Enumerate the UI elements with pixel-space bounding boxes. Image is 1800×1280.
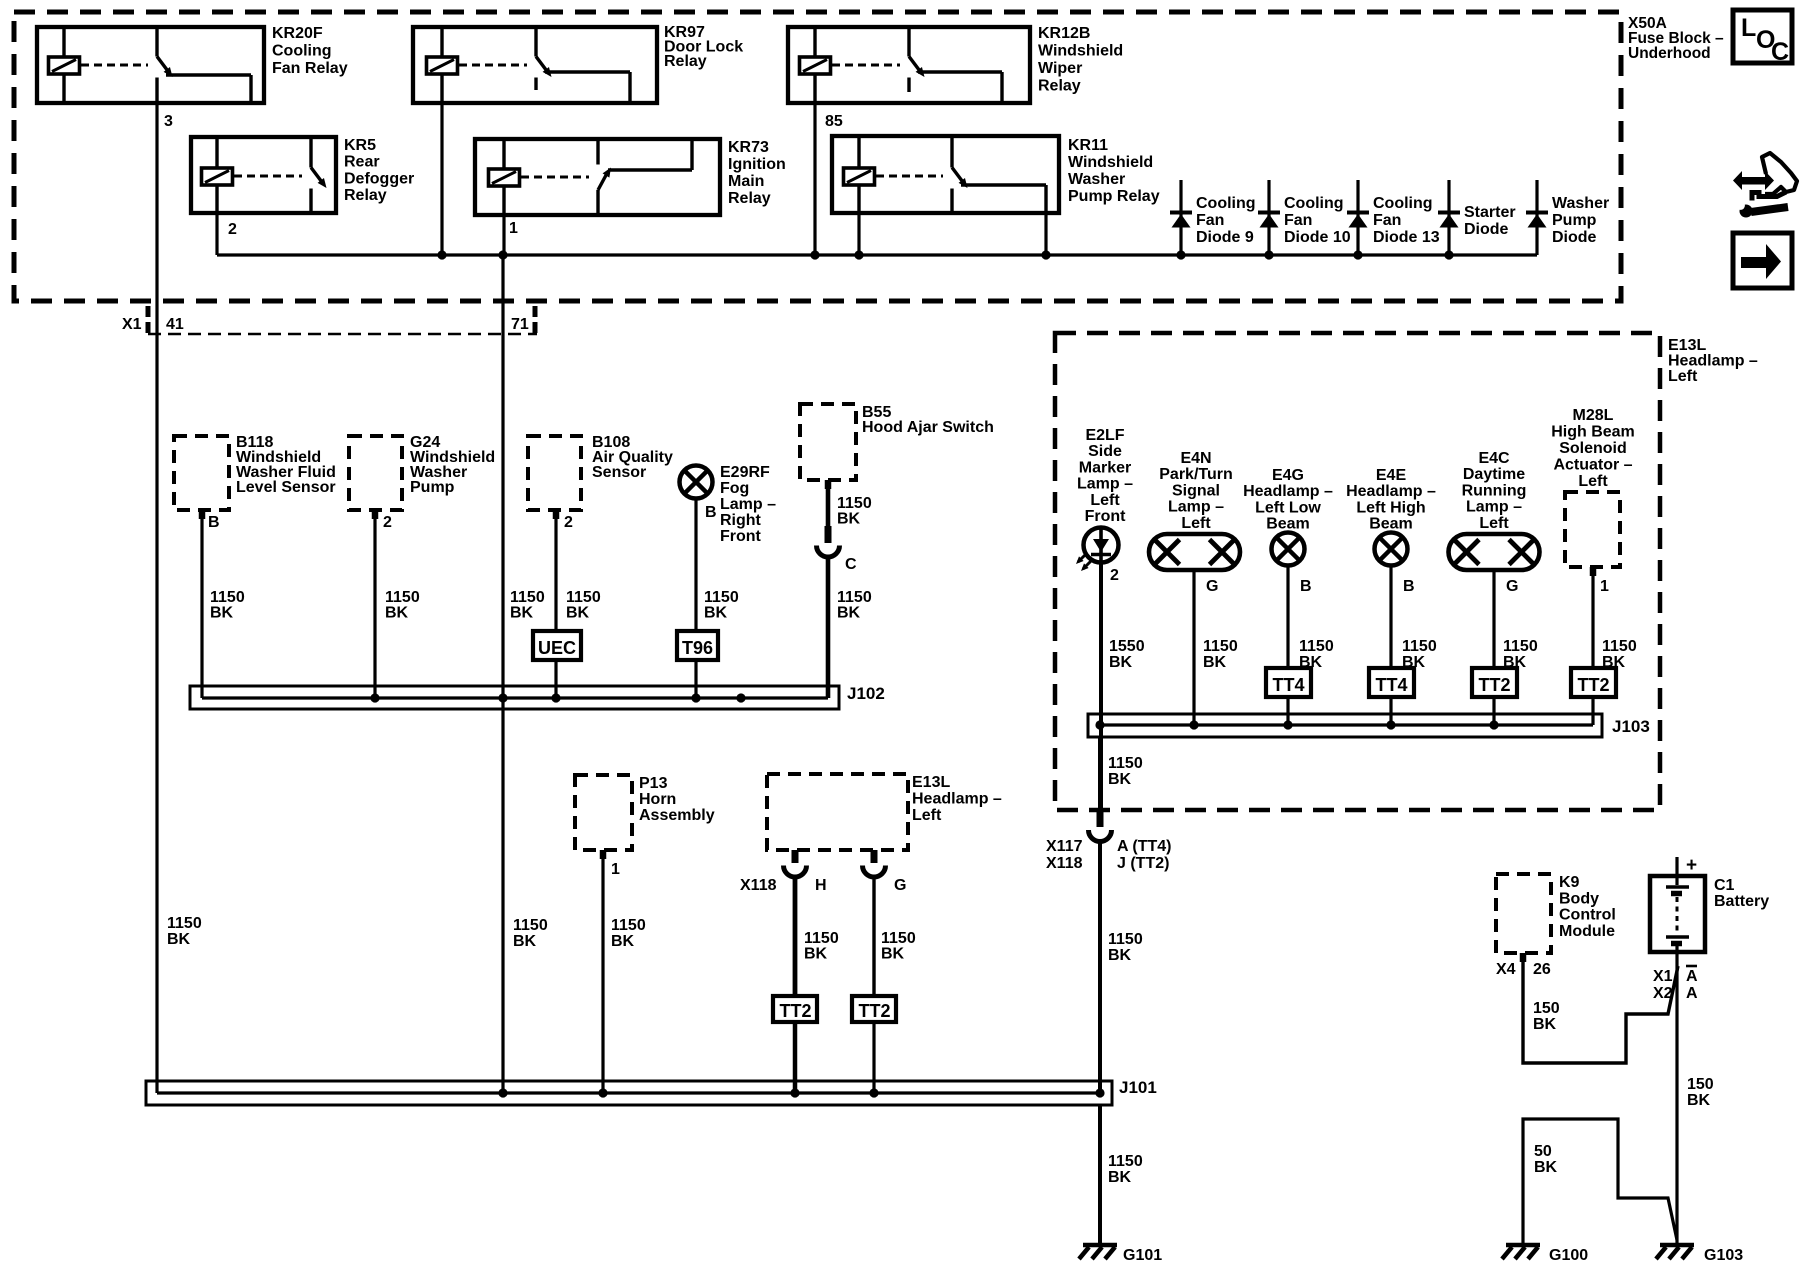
svg-text:Cooling: Cooling bbox=[1373, 195, 1433, 212]
svg-text:Relay: Relay bbox=[344, 187, 387, 204]
svg-text:Headlamp –: Headlamp – bbox=[1668, 353, 1758, 370]
svg-text:KR11: KR11 bbox=[1068, 137, 1108, 154]
svg-text:Daytime: Daytime bbox=[1463, 466, 1525, 483]
svg-text:Diode 10: Diode 10 bbox=[1284, 229, 1351, 246]
svg-text:41: 41 bbox=[166, 316, 184, 333]
svg-text:2: 2 bbox=[564, 514, 573, 531]
svg-text:B: B bbox=[1403, 578, 1415, 595]
svg-text:B: B bbox=[208, 514, 220, 531]
svg-text:Cooling: Cooling bbox=[272, 43, 332, 60]
svg-text:Left Low: Left Low bbox=[1255, 499, 1321, 516]
svg-text:2: 2 bbox=[383, 514, 392, 531]
svg-text:1150: 1150 bbox=[1108, 755, 1143, 772]
svg-text:1150: 1150 bbox=[611, 917, 646, 934]
svg-text:1150: 1150 bbox=[1203, 638, 1238, 655]
svg-text:Beam: Beam bbox=[1369, 516, 1413, 533]
svg-text:BK: BK bbox=[804, 946, 828, 963]
svg-text:Level Sensor: Level Sensor bbox=[236, 479, 336, 496]
svg-text:C: C bbox=[1771, 38, 1789, 66]
svg-text:Module: Module bbox=[1559, 923, 1615, 940]
svg-text:KR5: KR5 bbox=[344, 137, 376, 154]
svg-text:Headlamp –: Headlamp – bbox=[912, 791, 1002, 808]
svg-text:E29RF: E29RF bbox=[720, 464, 770, 481]
svg-text:Left High: Left High bbox=[1356, 499, 1425, 516]
svg-text:2: 2 bbox=[1110, 567, 1119, 584]
svg-text:G: G bbox=[1206, 578, 1218, 595]
svg-text:TT2: TT2 bbox=[1478, 675, 1510, 695]
svg-text:1550: 1550 bbox=[1109, 638, 1145, 655]
svg-text:High Beam: High Beam bbox=[1551, 424, 1635, 441]
svg-text:Fan: Fan bbox=[1196, 212, 1224, 229]
svg-text:Relay: Relay bbox=[664, 53, 707, 70]
svg-text:Starter: Starter bbox=[1464, 204, 1516, 221]
svg-text:Underhood: Underhood bbox=[1628, 45, 1711, 62]
svg-text:Diode: Diode bbox=[1552, 229, 1597, 246]
svg-text:Sensor: Sensor bbox=[592, 464, 646, 481]
svg-text:Actuator –: Actuator – bbox=[1553, 457, 1632, 474]
svg-text:KR73: KR73 bbox=[728, 139, 769, 156]
svg-text:T96: T96 bbox=[682, 638, 713, 658]
svg-text:1150: 1150 bbox=[513, 917, 548, 934]
svg-text:Fan: Fan bbox=[1373, 212, 1401, 229]
svg-text:E13L: E13L bbox=[912, 774, 950, 791]
svg-text:Cooling: Cooling bbox=[1284, 195, 1344, 212]
svg-text:BK: BK bbox=[167, 931, 191, 948]
svg-text:G: G bbox=[1506, 578, 1518, 595]
svg-text:1150: 1150 bbox=[837, 589, 872, 606]
svg-text:1150: 1150 bbox=[167, 915, 202, 932]
svg-text:TT2: TT2 bbox=[1577, 675, 1609, 695]
svg-text:E2LF: E2LF bbox=[1085, 427, 1124, 444]
svg-text:Diode 13: Diode 13 bbox=[1373, 229, 1440, 246]
svg-text:Lamp –: Lamp – bbox=[1168, 499, 1224, 516]
svg-text:1: 1 bbox=[611, 861, 620, 878]
svg-text:B: B bbox=[1300, 578, 1312, 595]
svg-text:J101: J101 bbox=[1119, 1078, 1157, 1097]
svg-text:BK: BK bbox=[1108, 771, 1132, 788]
svg-text:Diode: Diode bbox=[1464, 221, 1509, 238]
svg-text:BK: BK bbox=[1534, 1159, 1558, 1176]
svg-text:BK: BK bbox=[385, 605, 409, 622]
svg-text:Battery: Battery bbox=[1714, 893, 1769, 910]
svg-text:UEC: UEC bbox=[538, 638, 576, 658]
svg-text:TT4: TT4 bbox=[1272, 675, 1304, 695]
svg-text:Ignition: Ignition bbox=[728, 156, 786, 173]
svg-text:Headlamp –: Headlamp – bbox=[1346, 483, 1436, 500]
svg-text:1: 1 bbox=[1600, 578, 1609, 595]
svg-text:Left: Left bbox=[1668, 368, 1698, 385]
svg-text:B: B bbox=[705, 504, 717, 521]
svg-text:Fog: Fog bbox=[720, 480, 749, 497]
svg-text:Lamp –: Lamp – bbox=[1466, 499, 1522, 516]
svg-text:E4N: E4N bbox=[1180, 450, 1211, 467]
svg-text:E4E: E4E bbox=[1376, 467, 1407, 484]
svg-text:G103: G103 bbox=[1704, 1247, 1743, 1264]
svg-text:1150: 1150 bbox=[804, 930, 839, 947]
svg-text:Pump Relay: Pump Relay bbox=[1068, 188, 1160, 205]
svg-text:1150: 1150 bbox=[1299, 638, 1334, 655]
svg-text:C: C bbox=[845, 556, 857, 573]
svg-text:X118: X118 bbox=[740, 877, 777, 894]
svg-text:J103: J103 bbox=[1612, 717, 1650, 736]
svg-text:Park/Turn: Park/Turn bbox=[1159, 466, 1233, 483]
svg-text:26: 26 bbox=[1533, 961, 1551, 978]
svg-text:Pump: Pump bbox=[410, 479, 455, 496]
svg-text:1150: 1150 bbox=[1108, 1153, 1143, 1170]
svg-text:Washer: Washer bbox=[1552, 195, 1609, 212]
svg-text:Defogger: Defogger bbox=[344, 170, 414, 187]
svg-text:BK: BK bbox=[704, 605, 728, 622]
svg-text:Main: Main bbox=[728, 173, 764, 190]
svg-text:Windshield: Windshield bbox=[1068, 154, 1153, 171]
svg-text:A (TT4): A (TT4) bbox=[1117, 838, 1172, 855]
svg-text:Running: Running bbox=[1462, 482, 1527, 499]
svg-text:Marker: Marker bbox=[1079, 459, 1131, 476]
svg-text:G: G bbox=[894, 877, 906, 894]
svg-text:Left: Left bbox=[1479, 515, 1509, 532]
svg-text:Signal: Signal bbox=[1172, 482, 1220, 499]
svg-text:BK: BK bbox=[837, 605, 861, 622]
svg-text:Cooling: Cooling bbox=[1196, 195, 1256, 212]
svg-text:X2: X2 bbox=[1653, 985, 1673, 1002]
svg-text:150: 150 bbox=[1687, 1076, 1714, 1093]
svg-text:G101: G101 bbox=[1123, 1247, 1162, 1264]
svg-text:M28L: M28L bbox=[1573, 407, 1614, 424]
svg-text:Assembly: Assembly bbox=[639, 807, 715, 824]
svg-text:3: 3 bbox=[164, 113, 173, 130]
svg-text:Solenoid: Solenoid bbox=[1559, 440, 1627, 457]
svg-text:P13: P13 bbox=[639, 775, 668, 792]
svg-text:J (TT2): J (TT2) bbox=[1117, 855, 1169, 872]
svg-text:L: L bbox=[1741, 14, 1756, 42]
svg-text:+: + bbox=[1686, 855, 1697, 876]
svg-text:BK: BK bbox=[611, 933, 635, 950]
svg-text:Lamp –: Lamp – bbox=[1077, 476, 1133, 493]
svg-text:G100: G100 bbox=[1549, 1247, 1588, 1264]
svg-text:1150: 1150 bbox=[1503, 638, 1538, 655]
svg-text:1150: 1150 bbox=[704, 589, 739, 606]
svg-text:BK: BK bbox=[510, 605, 534, 622]
svg-text:Wiper: Wiper bbox=[1038, 60, 1082, 77]
svg-text:Left: Left bbox=[1090, 492, 1120, 509]
svg-text:Horn: Horn bbox=[639, 791, 676, 808]
svg-text:Relay: Relay bbox=[1038, 78, 1081, 95]
svg-text:1150: 1150 bbox=[510, 589, 545, 606]
svg-text:BK: BK bbox=[1203, 654, 1227, 671]
svg-text:X118: X118 bbox=[1046, 855, 1083, 872]
svg-text:TT4: TT4 bbox=[1375, 675, 1407, 695]
svg-text:Beam: Beam bbox=[1266, 516, 1310, 533]
svg-text:BK: BK bbox=[1108, 1169, 1132, 1186]
svg-text:Side: Side bbox=[1088, 443, 1122, 460]
svg-text:1150: 1150 bbox=[837, 495, 872, 512]
svg-text:KR20F: KR20F bbox=[272, 25, 323, 42]
svg-text:Diode 9: Diode 9 bbox=[1196, 229, 1254, 246]
svg-text:A: A bbox=[1686, 985, 1698, 1002]
svg-text:E13L: E13L bbox=[1668, 337, 1706, 354]
svg-text:Right: Right bbox=[720, 512, 762, 529]
svg-text:Relay: Relay bbox=[728, 190, 771, 207]
svg-text:H: H bbox=[815, 877, 827, 894]
svg-text:1150: 1150 bbox=[881, 930, 916, 947]
svg-text:150: 150 bbox=[1533, 1000, 1560, 1017]
svg-text:BK: BK bbox=[513, 933, 537, 950]
svg-text:1150: 1150 bbox=[1602, 638, 1637, 655]
svg-text:C1: C1 bbox=[1714, 877, 1735, 894]
svg-text:BK: BK bbox=[1687, 1092, 1711, 1109]
svg-text:Left: Left bbox=[1578, 473, 1608, 490]
svg-text:Fan: Fan bbox=[1284, 212, 1312, 229]
svg-text:BK: BK bbox=[881, 946, 905, 963]
svg-text:1150: 1150 bbox=[385, 589, 420, 606]
svg-text:BK: BK bbox=[1108, 947, 1132, 964]
svg-text:BK: BK bbox=[1533, 1016, 1557, 1033]
svg-text:1150: 1150 bbox=[210, 589, 245, 606]
svg-text:1150: 1150 bbox=[566, 589, 601, 606]
svg-text:TT2: TT2 bbox=[858, 1001, 890, 1021]
svg-text:Washer: Washer bbox=[1068, 171, 1125, 188]
svg-text:BK: BK bbox=[566, 605, 590, 622]
svg-text:Windshield: Windshield bbox=[1038, 43, 1123, 60]
svg-text:Fan Relay: Fan Relay bbox=[272, 60, 348, 77]
svg-text:Headlamp –: Headlamp – bbox=[1243, 483, 1333, 500]
svg-text:J102: J102 bbox=[847, 684, 885, 703]
svg-text:X117: X117 bbox=[1046, 838, 1083, 855]
svg-text:71: 71 bbox=[511, 316, 529, 333]
svg-text:2: 2 bbox=[228, 221, 237, 238]
svg-text:X4: X4 bbox=[1496, 961, 1516, 978]
svg-text:X1: X1 bbox=[122, 316, 142, 333]
svg-text:X1: X1 bbox=[1653, 968, 1673, 985]
svg-text:BK: BK bbox=[210, 605, 234, 622]
svg-text:Left: Left bbox=[912, 807, 942, 824]
svg-text:Lamp –: Lamp – bbox=[720, 496, 776, 513]
svg-text:TT2: TT2 bbox=[779, 1001, 811, 1021]
svg-text:50: 50 bbox=[1534, 1143, 1552, 1160]
svg-text:Body: Body bbox=[1559, 890, 1599, 907]
svg-text:A: A bbox=[1686, 968, 1698, 985]
svg-text:Front: Front bbox=[720, 528, 762, 545]
svg-text:Left: Left bbox=[1181, 515, 1211, 532]
svg-text:1150: 1150 bbox=[1402, 638, 1437, 655]
svg-text:Pump: Pump bbox=[1552, 212, 1597, 229]
svg-text:1150: 1150 bbox=[1108, 931, 1143, 948]
svg-text:Control: Control bbox=[1559, 907, 1616, 924]
svg-text:85: 85 bbox=[825, 113, 843, 130]
svg-text:KR12B: KR12B bbox=[1038, 25, 1090, 42]
svg-text:Hood Ajar Switch: Hood Ajar Switch bbox=[862, 419, 994, 436]
svg-text:K9: K9 bbox=[1559, 874, 1580, 891]
svg-text:1: 1 bbox=[509, 220, 518, 237]
svg-text:BK: BK bbox=[837, 511, 861, 528]
svg-text:E4C: E4C bbox=[1478, 450, 1510, 467]
svg-text:BK: BK bbox=[1109, 654, 1133, 671]
svg-text:Front: Front bbox=[1085, 508, 1127, 525]
svg-text:Rear: Rear bbox=[344, 154, 380, 171]
svg-text:E4G: E4G bbox=[1272, 467, 1304, 484]
